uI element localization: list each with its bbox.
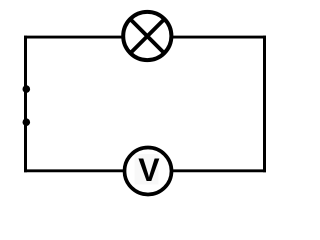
lamp L1 X diagonal 2: [131, 20, 164, 53]
wire: bottom horizontal: [24, 169, 266, 172]
wire: top horizontal: [24, 36, 266, 39]
wire: left vertical: [24, 36, 27, 173]
lamp L1 X diagonal 1: [131, 20, 164, 53]
node terminal A (upper dot): [23, 85, 31, 93]
svg-text:V: V: [138, 152, 160, 188]
node terminal B (lower dot): [23, 118, 31, 126]
wire: right vertical: [263, 36, 266, 173]
voltmeter V1 label background: [135, 154, 159, 185]
lamp L1 circle: [123, 12, 171, 60]
voltmeter V1 circle: [125, 148, 172, 195]
